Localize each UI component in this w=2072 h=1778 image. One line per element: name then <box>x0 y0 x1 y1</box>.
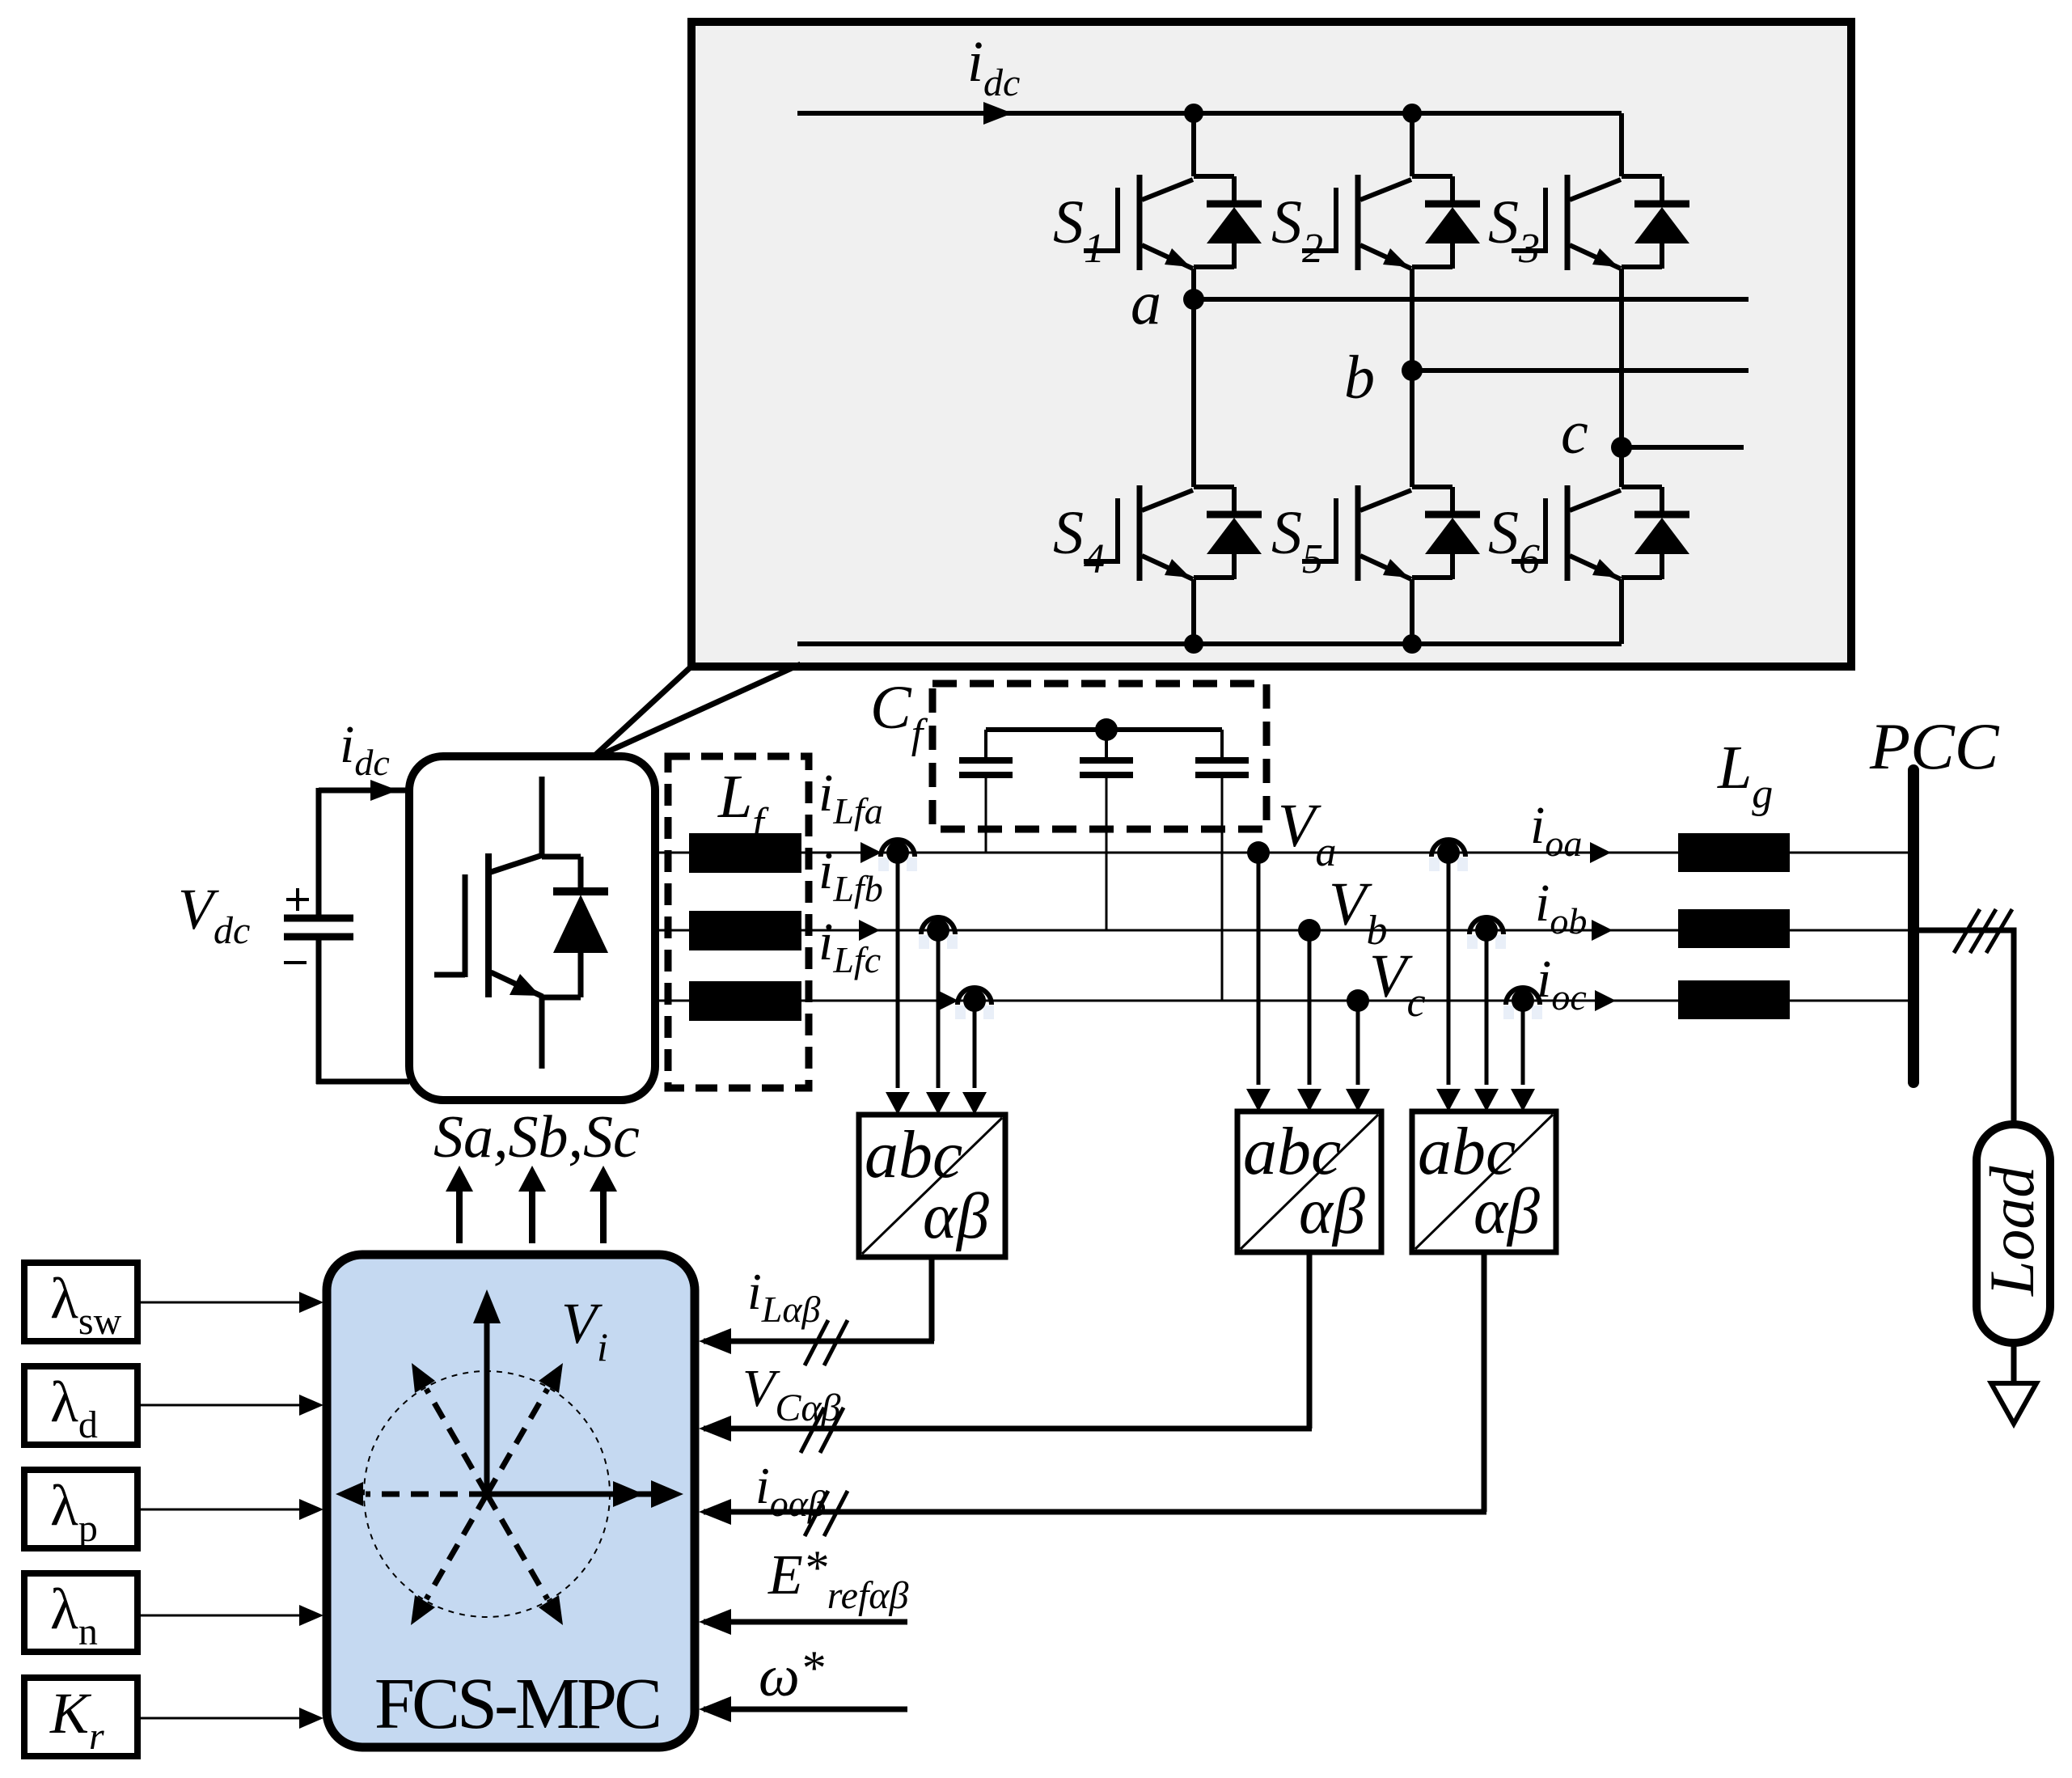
wire: leg b lower <box>1410 579 1414 644</box>
transform block U2 (abc to alpha-beta) <box>1237 1111 1381 1252</box>
slash marks i_Lab <box>805 1320 848 1365</box>
node: top bus junction leg b <box>1402 104 1422 123</box>
ground arrow (open) <box>1991 1383 2036 1424</box>
wire: Va measurement drop <box>1246 853 1271 1111</box>
wire: load to ground <box>2011 1343 2017 1385</box>
inductor Lf phase a <box>689 833 801 873</box>
wire: iLfc measurement drop <box>962 1009 987 1115</box>
node: Cf bus junction <box>1095 718 1118 741</box>
Cf dashed box <box>932 684 1266 829</box>
node Vc measurement point <box>1347 989 1369 1012</box>
sensor iLfb (current probe) <box>919 917 958 949</box>
sensor iob (current probe) <box>1467 917 1506 949</box>
wire: leg c lower <box>1619 579 1624 644</box>
tick marks /// on load branch <box>1954 909 2012 953</box>
node c junction dot <box>1611 437 1632 458</box>
arrow: i_oc <box>1595 990 1616 1011</box>
sensor ioa (current probe) <box>1429 840 1468 871</box>
arrow: i_oa <box>1590 842 1611 863</box>
svg-text:Sa,Sb,Sc: Sa,Sb,Sc <box>433 1104 640 1171</box>
wire: Cf2 to phase line <box>1106 778 1108 930</box>
vector arrow 120 deg (dashed) <box>412 1363 487 1494</box>
beta axis arrow (up) <box>473 1289 501 1494</box>
wire: iLfb measurement drop <box>926 938 950 1115</box>
slash marks i_oab <box>805 1491 848 1536</box>
transistor S4 (IGBT with antiparallel diode) <box>1084 485 1262 581</box>
vector V1 arrowhead <box>613 1481 644 1507</box>
wire: lambda_p input line <box>137 1499 323 1520</box>
wire: U1 output stub <box>929 1257 935 1341</box>
parameter box K_r <box>24 1678 137 1758</box>
transistor S5 (IGBT with antiparallel diode) <box>1302 485 1480 581</box>
svg-text:αβ: αβ <box>923 1181 989 1252</box>
wire: lambda_n input line <box>137 1605 323 1626</box>
PCC bus bar <box>1908 770 1919 1082</box>
wire: DC left vertical upper <box>316 788 322 918</box>
inverter detail inset box <box>691 22 1851 667</box>
svg-text:PCC: PCC <box>1869 709 2000 783</box>
transistor: inverter IGBT symbol <box>434 777 608 1069</box>
wire: DC left vertical lower <box>316 937 322 1084</box>
wire: gate signal arrow <box>446 1166 473 1243</box>
callout line upper <box>590 663 695 760</box>
wire: PCC branch to load <box>1913 930 2014 1124</box>
wire: E*ref input line <box>699 1609 907 1635</box>
inductor Lg phase c <box>1678 980 1790 1019</box>
vector arrow 240 deg (dashed) <box>411 1494 487 1625</box>
wire: lambda_sw input line <box>137 1292 323 1313</box>
transform block U3 (abc to alpha-beta) <box>1412 1111 1556 1252</box>
wire: leg a middle <box>1191 269 1196 487</box>
node: top bus junction leg a <box>1184 104 1203 123</box>
wire: omega* input line <box>699 1696 907 1722</box>
node: bottom bus junction leg b <box>1402 634 1422 654</box>
wire: Cf3 to phase line <box>1221 778 1224 1001</box>
alpha axis arrow (right) <box>487 1480 683 1508</box>
wire: inset phase a output <box>1194 297 1749 302</box>
wire: i_oab feedback line <box>699 1499 1486 1525</box>
wire: iob measurement drop <box>1474 938 1499 1111</box>
inductor Lf phase c <box>689 981 801 1021</box>
capacitor Cf3 <box>1195 730 1249 775</box>
wire: V_Cab feedback line <box>699 1416 1312 1441</box>
transistor S2 (IGBT with antiparallel diode) <box>1302 175 1480 270</box>
wire: Cf top bus <box>986 727 1222 732</box>
sensor iLfc (current probe) <box>955 988 994 1019</box>
transistor S3 (IGBT with antiparallel diode) <box>1512 175 1689 270</box>
vector arrow 60 deg (dashed) <box>487 1363 563 1494</box>
arrow: i_Lfc <box>937 990 958 1011</box>
space vector circle (dashed) <box>364 1371 610 1617</box>
wire: U3 output stub <box>1482 1252 1487 1512</box>
wire: inset DC+ top bus <box>797 102 1622 125</box>
node a junction dot <box>1183 289 1204 310</box>
capacitor Vdc bottom plate <box>284 933 353 941</box>
load element (capsule) <box>1977 1124 2050 1343</box>
wire: leg a upper <box>1191 113 1196 176</box>
wire: Vc measurement drop <box>1346 1001 1370 1111</box>
inductor Lg phase a <box>1678 833 1790 872</box>
node Va measurement point <box>1247 841 1270 864</box>
arrow: i_ob <box>1592 920 1613 941</box>
arrow: i_Lfa <box>861 842 882 863</box>
wire: iLfa measurement drop <box>886 861 910 1115</box>
wire: leg b upper <box>1410 113 1414 176</box>
svg-text:b: b <box>1344 344 1375 412</box>
wire: leg b middle <box>1410 269 1414 487</box>
wire: inset phase b output <box>1412 368 1749 373</box>
wire: leg a lower <box>1191 579 1196 644</box>
wire: leg c upper <box>1619 113 1624 176</box>
parameter box lambda_p <box>24 1470 137 1550</box>
wire: U2 output stub <box>1307 1252 1313 1429</box>
svg-text:FCS-MPC: FCS-MPC <box>374 1664 659 1744</box>
svg-text:αβ: αβ <box>1299 1176 1365 1247</box>
wire: Cf1 to phase line <box>985 778 987 853</box>
node b junction dot <box>1402 360 1423 381</box>
wire: leg c middle <box>1619 269 1624 487</box>
parameter box lambda_n <box>24 1573 137 1653</box>
vector arrow 300 deg (dashed) <box>487 1494 563 1625</box>
capacitor Cf2 <box>1080 730 1133 775</box>
wire: DC top <box>319 780 409 801</box>
arrow: i_Lfb <box>859 920 880 941</box>
node: bottom bus junction leg a <box>1184 634 1203 654</box>
svg-text:a: a <box>1131 269 1161 337</box>
slash marks V_Cab <box>801 1408 844 1453</box>
capacitor Cf1 <box>959 730 1013 775</box>
sensor iLfa (current probe) <box>878 840 917 871</box>
minus sign <box>284 961 307 964</box>
node Vb measurement point <box>1298 919 1321 942</box>
FCS-MPC controller block <box>327 1255 695 1747</box>
parameter box lambda_d <box>24 1366 137 1446</box>
wire: i_Lab feedback line <box>699 1328 934 1354</box>
plus sign <box>286 888 309 911</box>
Lf dashed box <box>668 756 809 1088</box>
capacitor Vdc top plate <box>284 915 353 922</box>
wire: K_r input line <box>137 1708 323 1729</box>
wire: phase c line <box>655 1000 1913 1002</box>
wire: phase a line <box>655 852 1913 854</box>
inverter block (VSI) <box>409 756 655 1100</box>
vector arrow 180 deg (dashed) <box>336 1482 487 1506</box>
wire: gate signal arrow <box>518 1166 546 1243</box>
callout line lower <box>590 664 801 760</box>
inductor Lg phase b <box>1678 909 1790 948</box>
transform block U1 (abc to alpha-beta) <box>859 1115 1005 1257</box>
wire: lambda_d input line <box>137 1395 323 1416</box>
transistor S6 (IGBT with antiparallel diode) <box>1512 485 1689 581</box>
svg-text:Load: Load <box>1977 1166 2047 1297</box>
wire: gate signal arrow <box>590 1166 617 1243</box>
wire: inset phase c output <box>1622 445 1744 450</box>
inductor Lf phase b <box>689 911 801 950</box>
svg-text:c: c <box>1561 399 1588 467</box>
wire: ioa measurement drop <box>1436 861 1461 1111</box>
wire: inset DC- bottom bus <box>797 641 1622 646</box>
wire: phase b line <box>655 929 1913 932</box>
svg-text:αβ: αβ <box>1474 1176 1540 1247</box>
parameter box lambda_sw <box>24 1263 137 1343</box>
wire: Vb measurement drop <box>1297 930 1321 1111</box>
transistor S1 (IGBT with antiparallel diode) <box>1084 175 1262 270</box>
sensor ioc (current probe) <box>1503 988 1542 1019</box>
wire: DC bottom <box>316 1079 409 1085</box>
wire: ioc measurement drop <box>1511 1009 1535 1111</box>
